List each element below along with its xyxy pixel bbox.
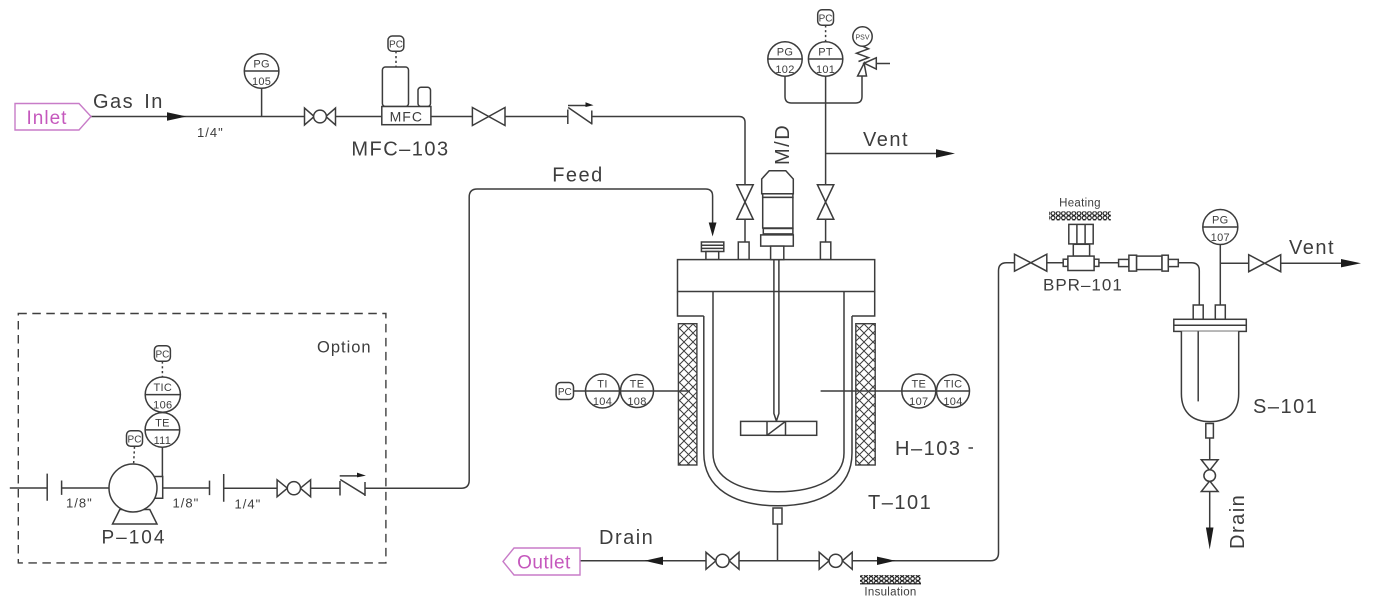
- svg-text:M/D: M/D: [772, 124, 794, 165]
- label 1/8" discharge: [173, 496, 200, 511]
- svg-text:Feed: Feed: [552, 165, 604, 187]
- valve gas drop (vertical): [737, 185, 753, 220]
- svg-text:PC: PC: [155, 350, 169, 361]
- reactor neck left: [678, 292, 704, 317]
- svg-text:MFC: MFC: [390, 109, 423, 125]
- valve ball drain left: [706, 552, 739, 569]
- label 1/4" option: [235, 497, 262, 512]
- wire: PG102 connector: [785, 76, 826, 103]
- svg-text:104: 104: [593, 396, 612, 408]
- node: reactor bottom nozzle: [773, 508, 782, 561]
- heating strip: [1049, 198, 1111, 221]
- separator dip tube: [1197, 331, 1199, 401]
- label Vent top: [863, 129, 909, 151]
- svg-text:107: 107: [1211, 232, 1230, 244]
- svg-text:102: 102: [775, 64, 794, 76]
- label Vent right: [1289, 237, 1335, 259]
- node: drain arrow right: [877, 557, 896, 565]
- svg-text:PT: PT: [818, 47, 833, 59]
- node: separator drain arrow: [1206, 528, 1214, 550]
- inlet tag: [15, 104, 91, 131]
- svg-text:1/4": 1/4": [197, 125, 224, 140]
- svg-text:Vent: Vent: [1289, 237, 1335, 259]
- reactor neck right: [852, 292, 875, 317]
- heater H-103 left block: [678, 324, 697, 465]
- wire: PG107 line to separator: [1219, 245, 1221, 305]
- wire: valve to check valve option: [311, 487, 340, 489]
- svg-text:1/4": 1/4": [235, 497, 262, 512]
- node: vent arrow top: [936, 149, 955, 157]
- wire: heater to separator: [1178, 263, 1199, 305]
- pump P-104: [109, 464, 163, 524]
- agitator impeller: [741, 421, 817, 435]
- inline heater after BPR: [1119, 255, 1179, 271]
- valve separator drain (vertical ball): [1201, 460, 1218, 492]
- wire: right instrument line: [821, 390, 970, 392]
- svg-text:TE: TE: [911, 379, 926, 391]
- gauge PG 107: [1203, 210, 1238, 245]
- svg-text:Outlet: Outlet: [517, 553, 571, 574]
- wire: TE111 to pump: [161, 447, 163, 476]
- label BPR-101: [1043, 276, 1123, 295]
- wire: vent branch top: [826, 153, 937, 155]
- svg-text:101: 101: [816, 64, 835, 76]
- gauge PG 105: [244, 54, 279, 117]
- svg-text:PG: PG: [253, 59, 270, 71]
- option dashed box: [18, 314, 386, 563]
- svg-text:PSV: PSV: [855, 35, 869, 42]
- relief valve PSV: [853, 27, 890, 76]
- svg-text:S–101: S–101: [1253, 396, 1318, 418]
- element TE 108: [621, 375, 654, 409]
- svg-text:P–104: P–104: [102, 528, 167, 549]
- indicator TI 104: [586, 374, 620, 408]
- svg-text:MFC–103: MFC–103: [351, 139, 449, 161]
- element TE 111: [145, 413, 180, 448]
- label S-101: [1253, 396, 1318, 418]
- svg-text:T–101: T–101: [868, 492, 932, 514]
- svg-text:H–103: H–103: [895, 438, 961, 460]
- svg-text:1/8": 1/8": [173, 496, 200, 511]
- agitator shaft: [774, 260, 779, 421]
- reactor lid: [678, 260, 875, 292]
- valve ball option: [277, 480, 311, 497]
- svg-text:TIC: TIC: [153, 382, 172, 394]
- svg-text:PC: PC: [819, 14, 833, 25]
- svg-text:Option: Option: [317, 339, 372, 357]
- wire: pump suction stub: [10, 474, 110, 501]
- motor M/D stack: [761, 171, 794, 260]
- label Drain bottom: [599, 527, 654, 549]
- valve bpr inlet: [1015, 254, 1047, 271]
- wire: option line to valve: [224, 474, 277, 502]
- element TE 107: [902, 374, 936, 408]
- transmitter PT 101: [808, 42, 842, 76]
- svg-text:Drain: Drain: [1227, 494, 1249, 549]
- label Feed: [552, 165, 604, 187]
- svg-text:PC: PC: [558, 387, 572, 398]
- svg-text:BPR–101: BPR–101: [1043, 276, 1123, 295]
- wire: vent branch right: [1220, 262, 1342, 264]
- reactor T-101 vessel outer shell: [704, 316, 852, 506]
- instrument PC top of PT: [818, 10, 834, 42]
- wire: PSV connector: [826, 76, 862, 103]
- label Gas In: [93, 91, 164, 113]
- wire: left instrument line: [574, 390, 691, 392]
- label 1/8" suction: [66, 496, 93, 511]
- label 1/4" gas line: [197, 125, 224, 140]
- check valve gas line: [568, 102, 594, 124]
- wire: bpr to heater: [1047, 262, 1119, 264]
- instrument PC left of pump: [127, 431, 143, 464]
- node: feed arrow into reactor: [709, 223, 717, 237]
- separator S-101 flange: [1174, 319, 1247, 331]
- svg-text:108: 108: [627, 396, 646, 408]
- svg-text:TIC: TIC: [944, 379, 963, 391]
- svg-text:Inlet: Inlet: [27, 108, 68, 129]
- node: flow arrow gas in: [167, 112, 187, 120]
- svg-text:105: 105: [252, 76, 271, 88]
- label P-104: [102, 528, 167, 549]
- instrument PC above TIC106: [154, 346, 170, 377]
- wire: feed line from option to reactor: [365, 189, 712, 488]
- controller TIC 106: [145, 377, 180, 412]
- separator S-101 nozzles: [1193, 305, 1225, 319]
- reactor T-101 vessel inner shell: [713, 292, 844, 492]
- svg-text:Vent: Vent: [863, 129, 909, 151]
- outlet tag: [503, 548, 580, 575]
- wire: drain line and riser to BPR: [580, 263, 1015, 561]
- svg-text:1/8": 1/8": [66, 496, 93, 511]
- svg-text:106: 106: [153, 400, 172, 412]
- svg-text:TE: TE: [630, 379, 645, 391]
- svg-text:PC: PC: [389, 40, 403, 51]
- valve ball drain right: [819, 552, 852, 569]
- regulator BPR-101: [1063, 224, 1099, 270]
- svg-text:TE: TE: [155, 417, 170, 429]
- svg-text:107: 107: [909, 396, 928, 408]
- node: feed nozzle cap on lid: [701, 242, 723, 260]
- MFC-103 mass flow controller: [382, 67, 431, 125]
- valve vent right: [1249, 255, 1281, 272]
- wire: pump discharge: [163, 481, 210, 496]
- svg-text:Insulation: Insulation: [864, 587, 916, 599]
- controller TIC 104: [937, 375, 970, 409]
- check valve option: [340, 473, 366, 496]
- svg-text:104: 104: [943, 396, 962, 408]
- instrument PC left of TI: [556, 383, 573, 400]
- label M/D: [772, 124, 794, 165]
- separator S-101 body: [1181, 331, 1238, 421]
- instrument PC on MFC: [388, 36, 404, 67]
- gauge PG 102: [768, 42, 802, 76]
- wire: gas inlet main line: [91, 117, 745, 243]
- wire: PT line down to reactor: [825, 76, 827, 242]
- insulation strip: [860, 575, 921, 599]
- node: vent nozzle on reactor lid: [820, 242, 830, 260]
- label T-101: [868, 492, 932, 514]
- svg-text:PC: PC: [128, 435, 142, 446]
- node: vent arrow right: [1341, 259, 1361, 267]
- valve ball inlet: [305, 108, 336, 125]
- svg-text:Heating: Heating: [1059, 198, 1101, 210]
- node: separator bottom nozzle: [1206, 424, 1214, 530]
- svg-text:PG: PG: [1212, 215, 1229, 227]
- svg-text:GasIn: GasIn: [93, 91, 164, 113]
- label MFC-103: [351, 139, 449, 161]
- valve V2 after MFC: [472, 108, 505, 126]
- valve vent drop (vertical): [817, 185, 833, 220]
- svg-text:111: 111: [154, 435, 172, 447]
- svg-text:Drain: Drain: [599, 527, 654, 549]
- node: gas nozzle on reactor lid: [738, 242, 749, 260]
- label H-103: [895, 438, 973, 460]
- svg-text:PG: PG: [777, 47, 794, 59]
- label Option: [317, 339, 372, 357]
- node: drain arrow left: [645, 557, 664, 565]
- heater H-103 right block: [856, 324, 875, 465]
- svg-text:TI: TI: [597, 379, 607, 391]
- label Drain rotated: [1227, 494, 1249, 549]
